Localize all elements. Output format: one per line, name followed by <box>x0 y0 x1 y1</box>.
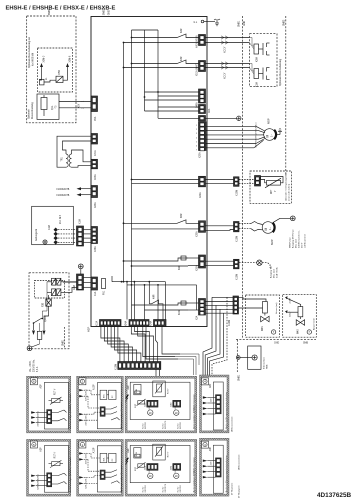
svg-text:21C Nr.3: 21C Nr.3 <box>59 214 62 224</box>
svg-text:A2P: A2P <box>40 447 43 452</box>
switch K4R <box>149 294 163 319</box>
sensor box top <box>153 444 170 460</box>
svg-text:Reserveheizung: Reserveheizung <box>31 102 34 119</box>
inner dashed box K5R <box>38 48 73 92</box>
svg-text:F1006/A07B: F1006/A07B <box>57 188 70 191</box>
svg-text:X26A: X26A <box>94 202 97 208</box>
component L1 fuse <box>40 71 57 85</box>
svg-text:Ausgang: Mit Pumpe: Ausgang: Mit Pumpe <box>291 229 294 248</box>
svg-text:X2M-3: X2M-3 <box>86 477 88 483</box>
svg-text:XCCY: XCCY <box>225 72 227 79</box>
svg-text:230V/50 Hz,: 230V/50 Hz, <box>34 359 36 372</box>
svg-text:X1M: X1M <box>170 466 172 471</box>
terminal X12M pump <box>234 222 240 243</box>
svg-text:1~: 1~ <box>269 134 273 137</box>
svg-text:7: 7 <box>308 330 310 334</box>
svg-text:X41A (YLW): X41A (YLW) <box>196 35 199 48</box>
wires X2A to valves <box>206 297 267 327</box>
connector X5A on box edge <box>91 96 98 121</box>
wires X35A to X12M <box>206 225 234 227</box>
pump motor M5P <box>264 118 276 140</box>
connector X1A FU1 <box>91 277 106 296</box>
wire top run <box>132 29 159 31</box>
wire bus row 2 <box>127 284 197 310</box>
relay K5R contact <box>56 70 68 83</box>
svg-text:K2M: K2M <box>257 57 259 62</box>
svg-text:Nur für die Wärmepumpenkaskade: Nur für die Wärmepumpenkaskadenfunktion <box>225 392 228 429</box>
ground outdoor <box>43 240 47 244</box>
wires X13A down to strip <box>101 327 141 362</box>
pump M2P <box>262 222 274 245</box>
svg-text:7: 7 <box>273 330 275 334</box>
wire vertical bus 4 <box>157 30 159 118</box>
wires X1M to box <box>84 229 92 231</box>
svg-text:SMB2: SMB2 <box>49 8 51 15</box>
label WW-Pumpe block <box>289 229 306 248</box>
svg-text:X13A: X13A <box>96 320 99 326</box>
svg-text:X1M: X1M <box>170 402 172 407</box>
svg-text:R1T t°: R1T t° <box>54 388 57 395</box>
relay contact pair 1 <box>47 278 77 285</box>
svg-text:EKRTR1: EKRTR1 <box>145 422 147 429</box>
outdoor unit box <box>32 206 74 244</box>
svg-text:L1: L1 <box>46 77 48 80</box>
circled contact 1 <box>148 464 153 479</box>
dashed net SMB2 vertical <box>285 16 287 175</box>
outer dashed box optional backup heater <box>27 16 76 123</box>
svg-text:K2R: K2R <box>181 28 183 33</box>
svg-text:SMB2: SMB2 <box>283 19 285 26</box>
svg-text:X2M-2: X2M-2 <box>38 416 40 422</box>
wire to X35A with switch K6R <box>124 220 199 224</box>
thermostat option box A13P hatched border <box>77 439 124 496</box>
X1M connector 1 <box>144 400 158 407</box>
svg-text:X25A: X25A <box>199 152 202 158</box>
R1H box <box>134 384 141 394</box>
receiver A13P inner box <box>97 446 121 492</box>
svg-text:X6A: X6A <box>208 108 211 113</box>
connector in R6T box <box>255 176 261 187</box>
svg-text:R1H: R1H <box>136 452 138 457</box>
module block 2 <box>109 453 116 462</box>
circled number 5 <box>30 441 37 448</box>
connector X46A <box>196 89 206 108</box>
svg-text:DT Hauptgerät: DT Hauptgerät <box>238 485 241 498</box>
svg-text:X5A: X5A <box>94 116 97 121</box>
note texts nur fuer <box>143 483 183 492</box>
svg-text:23 A5P: 23 A5P <box>289 297 292 303</box>
wires to X6A <box>158 106 199 108</box>
module block 2 <box>109 390 116 399</box>
wire X51A pin2 <box>124 67 199 69</box>
transformer TR1 <box>62 154 72 167</box>
dashed box valve B (3UVDHW) <box>283 295 317 338</box>
connector X1M A2P <box>47 473 52 487</box>
wires right side down <box>175 297 227 375</box>
module block 1 <box>100 453 107 462</box>
svg-text:SMB2: SMB2 <box>104 8 106 15</box>
connector X06A <box>91 159 98 180</box>
svg-text:X2M-2: X2M-2 <box>38 479 40 485</box>
svg-text:LAN Zusatzstation: LAN Zusatzstation <box>238 455 241 470</box>
connector pins LAN <box>216 458 222 477</box>
contact output A2P <box>52 473 67 484</box>
connector A13P <box>100 407 105 417</box>
svg-text:GND: GND <box>109 10 111 15</box>
connector X30A <box>188 255 206 271</box>
terminal X12M output <box>234 259 240 280</box>
svg-text:A13P: A13P <box>93 384 96 390</box>
svg-text:R1T t°: R1T t° <box>54 452 57 459</box>
circled contact 2 <box>174 400 179 415</box>
svg-text:X12M: X12M <box>237 274 239 280</box>
svg-text:X34A: X34A <box>94 246 97 252</box>
thermostat option box A8P LAN hatched border <box>200 438 230 496</box>
connector X34A on box edge <box>91 227 98 253</box>
wire X35A pin2 <box>132 228 199 230</box>
svg-text:2 A Wechselstroms,: 2 A Wechselstroms, <box>297 230 300 248</box>
svg-text:Nur für mehrstufigen Thermosta: Nur für mehrstufigen Thermostat <box>120 464 123 492</box>
wires X41A to K2M with XCCY arrows <box>206 36 255 53</box>
svg-text:6: 6 <box>196 146 197 148</box>
svg-text:4: 4 <box>196 137 197 139</box>
circled contact 1 <box>148 400 153 415</box>
svg-text:0,5A~35mA: 0,5A~35mA <box>276 267 279 278</box>
connector X1M A2P <box>47 410 52 424</box>
wire bus row 1 <box>112 276 166 320</box>
svg-text:XCCY: XCCY <box>225 46 227 53</box>
link blocks <box>107 457 109 459</box>
R1H box <box>134 448 141 458</box>
thermostat A2P inner box <box>44 446 68 493</box>
wire to X41A with switch K2R <box>132 34 199 38</box>
connector X51A <box>196 61 206 77</box>
svg-text:K1M: K1M <box>257 82 259 87</box>
circled number 4 <box>202 378 209 385</box>
svg-text:SMB1: SMB1 <box>238 20 240 27</box>
svg-text:BU1: BU1 <box>104 458 106 462</box>
svg-text:230 V: 230 V <box>301 242 303 248</box>
output circle indicator <box>239 260 279 278</box>
svg-text:SMB: SMB <box>267 364 269 369</box>
svg-text:7: 7 <box>196 150 197 152</box>
pump motor M5P wires <box>206 116 266 148</box>
svg-text:1~: 1~ <box>268 227 272 230</box>
svg-text:3: 3 <box>196 133 197 135</box>
wireless thermostat inner box <box>130 382 190 419</box>
svg-text:F1006/A07B: F1006/A07B <box>57 194 70 197</box>
ground terminal PE <box>78 264 83 274</box>
wire vertical bus 2 <box>131 30 133 320</box>
dashed links outdoor to X1M <box>58 230 77 243</box>
dashed box valve A (3UVB1) <box>246 295 280 337</box>
svg-text:K4R: K4R <box>154 294 156 299</box>
wires X12M to M2P <box>239 222 263 232</box>
main switch <box>33 282 47 324</box>
wireless thermostat inner box <box>130 445 190 482</box>
svg-text:X31A: X31A <box>94 150 97 156</box>
svg-text:SMB: SMB <box>303 343 308 345</box>
svg-text:X2M-4: X2M-4 <box>86 483 88 489</box>
svg-text:A2P: A2P <box>127 385 130 390</box>
svg-text:GND: GND <box>274 343 279 345</box>
svg-text:X2A: X2A <box>196 315 199 320</box>
svg-text:Nur für einstufigen (EIN/AUS): Nur für einstufigen (EIN/AUS) Thermostat <box>69 457 72 492</box>
connector A13P <box>100 470 105 480</box>
note texts nur fuer <box>143 420 183 429</box>
terminal X12M valves <box>229 296 239 326</box>
svg-text:X2M: X2M <box>211 461 213 465</box>
svg-text:X1M: X1M <box>144 466 146 471</box>
svg-text:X2M-1: X2M-1 <box>38 411 40 417</box>
wires X51A to K1M with XCCY arrows <box>206 62 255 79</box>
dashed box optional heater contactors <box>250 34 277 87</box>
svg-text:Optionale: Optionale <box>28 108 31 119</box>
module block 1 <box>100 390 107 399</box>
terminal X15M <box>234 177 240 196</box>
svg-text:EHSH-E / EHSHB-E / EHSX-E / EH: EHSH-E / EHSHB-E / EHSX-E / EHSXB-E <box>6 6 116 12</box>
thermal protector Q1L box <box>37 94 59 119</box>
wire vertical bus 3 <box>144 30 146 111</box>
contactor K2M <box>254 43 270 62</box>
main unit box A1P <box>91 17 207 327</box>
relay KCR with connector X2A <box>132 301 189 315</box>
svg-text:X2M-4: X2M-4 <box>86 420 88 426</box>
svg-text:6,3 A: 6,3 A <box>36 366 39 372</box>
lightning bolt RF <box>125 395 129 403</box>
svg-text:Max. Last:: Max. Last: <box>273 268 276 278</box>
arrow X2M-3 <box>40 55 45 71</box>
R1T wireless <box>135 399 145 408</box>
svg-text:für 04/08 kW: für 04/08 kW <box>32 52 35 66</box>
svg-text:X2M-3: X2M-3 <box>86 414 88 420</box>
svg-text:X51A (WHT): X51A (WHT) <box>196 63 199 76</box>
terminal X1M <box>77 219 84 246</box>
X1M connector 2 <box>170 400 180 407</box>
wire to X51A with switch K3R <box>132 60 199 64</box>
svg-text:X12M: X12M <box>229 320 231 326</box>
svg-text:KCR: KCR <box>179 310 181 315</box>
svg-text:LAN Zusatzstation: LAN Zusatzstation <box>231 417 234 432</box>
LAN adapter inner box <box>213 382 223 430</box>
wire to X22A <box>132 179 199 181</box>
net SMB1 stub <box>63 327 65 348</box>
svg-text:(innen oder außen): (innen oder außen) <box>289 184 291 201</box>
earth connection box <box>236 346 268 369</box>
svg-text:A2P: A2P <box>127 448 130 453</box>
svg-text:X14A: X14A <box>150 320 153 326</box>
ground M5P <box>275 129 282 135</box>
outdoor unit terminal pins <box>54 228 58 245</box>
svg-text:1: 1 <box>196 125 197 127</box>
R1T wireless <box>135 462 145 471</box>
contact output A2P <box>52 410 67 421</box>
svg-text:X24A: X24A <box>125 320 128 326</box>
svg-text:A2P: A2P <box>40 384 43 389</box>
connector X41A <box>196 35 206 49</box>
svg-text:X35A: X35A <box>196 231 199 237</box>
connector pins LAN <box>216 395 222 414</box>
svg-text:Optionale Reserveheizung: Optionale Reserveheizung <box>279 58 282 86</box>
lightning bolt RF <box>125 458 129 466</box>
inner dashed box relays <box>35 281 65 299</box>
connector X24A <box>125 320 150 327</box>
svg-text:Erdanschluss: Erdanschluss <box>264 357 266 369</box>
node junctions <box>123 37 159 267</box>
svg-text:DT Hauptzone: DT Hauptzone <box>231 483 234 495</box>
svg-text:Nur für mehrstufigen Thermosta: Nur für mehrstufigen Thermostat <box>120 401 123 429</box>
wires TR1 to X06A <box>72 150 92 162</box>
svg-text:X22A: X22A <box>199 192 202 198</box>
X1M connector 2 <box>170 464 180 471</box>
svg-text:M4S: M4S <box>298 329 300 334</box>
wires X14A down to strip <box>155 327 180 362</box>
fuse F2B <box>43 295 52 311</box>
input arrows LAN <box>203 460 216 479</box>
svg-text:X1M: X1M <box>80 219 82 224</box>
arrows F1006/A07B <box>57 187 94 197</box>
svg-text:K3R: K3R <box>181 56 183 61</box>
thermostat option box A2P wired hatched border <box>27 376 71 433</box>
svg-text:X1M: X1M <box>49 225 51 230</box>
sensor box top <box>153 381 170 397</box>
svg-text:X29A: X29A <box>196 265 199 271</box>
ground supply <box>27 344 39 351</box>
svg-text:Nur für einstufigen (EIN/AUS): Nur für einstufigen (EIN/AUS) Thermostat <box>69 394 72 429</box>
wire to X21A <box>158 117 199 119</box>
svg-text:Heizen (aus): Heizen (aus) <box>276 302 278 314</box>
svg-text:5: 5 <box>196 141 197 143</box>
thermostat option box A2P wireless hatched border <box>125 439 197 496</box>
ground M2P <box>273 216 296 223</box>
connector X2A <box>188 299 206 321</box>
svg-text:R6T: R6T <box>271 189 273 194</box>
svg-text:X2M-6: X2M-6 <box>69 55 71 62</box>
svg-text:1N~, 230V,: 1N~, 230V, <box>30 360 32 372</box>
svg-text:G L: G L <box>194 22 198 24</box>
svg-text:Absperrventil: Absperrventil <box>313 318 316 330</box>
svg-text:TR1: TR1 <box>62 156 64 161</box>
thermostat option box A8P LAN hatched border <box>200 375 230 433</box>
svg-text:EKRTR1: EKRTR1 <box>145 485 147 492</box>
arrow X2M-6 <box>66 55 71 71</box>
svg-text:GND: GND <box>244 21 246 26</box>
svg-text:F2B: F2B <box>43 302 45 307</box>
svg-text:-T0: -T0 <box>56 105 58 109</box>
circled number 6 <box>30 378 37 385</box>
svg-text:X2M-3: X2M-3 <box>38 484 40 490</box>
svg-text:Außengerät: Außengerät <box>35 229 38 241</box>
svg-text:EKRTR1: EKRTR1 <box>180 485 182 492</box>
circled number 2 <box>79 378 86 385</box>
thermostat A2P inner box <box>44 382 68 429</box>
svg-text:EKRTETS: EKRTETS <box>165 420 167 429</box>
terminal X2M <box>74 274 84 290</box>
svg-text:X1A: X1A <box>94 291 97 296</box>
svg-text:M5P: M5P <box>267 118 271 124</box>
svg-text:A8P: A8P <box>209 383 212 388</box>
connector X31A <box>91 134 98 157</box>
svg-text:Nur für kabellosen (EIN/AUS) T: Nur für kabellosen (EIN/AUS) Thermostat <box>192 457 195 492</box>
dashed net line bottom <box>236 340 316 381</box>
svg-text:K9R: K9R <box>179 265 181 270</box>
svg-text:SMB1: SMB1 <box>239 374 241 381</box>
svg-text:1 A Steuerstrom: 1 A Steuerstrom <box>303 233 306 248</box>
svg-text:BU1: BU1 <box>104 394 106 398</box>
svg-text:Nur für die Wärmepumpenkaskade: Nur für die Wärmepumpenkaskadenfunktion <box>225 455 228 492</box>
svg-text:EKRTR1: EKRTR1 <box>180 422 182 429</box>
supply arrows down <box>32 311 49 335</box>
svg-text:X06A: X06A <box>94 174 97 180</box>
svg-text:Max. Last:: Max. Last: <box>294 238 297 248</box>
input arrows A13P <box>79 452 100 489</box>
svg-text:1: 1 <box>83 100 85 102</box>
svg-text:FU1: FU1 <box>104 290 106 295</box>
svg-text:X5Y: X5Y <box>79 103 81 108</box>
input arrows A13P <box>79 389 100 426</box>
wires to X46A <box>145 91 199 93</box>
supply fuse element <box>37 323 42 344</box>
LAN adapter inner box <box>213 445 223 493</box>
svg-text:M4S: M4S <box>262 326 264 331</box>
dashed box optional sensor R6T <box>250 171 292 203</box>
svg-text:R1T t°: R1T t° <box>166 388 169 394</box>
X1M connector 1 <box>144 464 158 471</box>
dashed box Q2D1 supply <box>29 273 69 349</box>
connector X14A <box>150 320 167 327</box>
svg-text:BLU: BLU <box>256 122 258 126</box>
svg-text:Ausgang "AN": Ausgang "AN" <box>270 265 273 278</box>
wires Q1L to X5Y <box>59 101 93 103</box>
thermistor R1T symbol <box>49 397 64 405</box>
connector X35A <box>196 221 206 237</box>
svg-text:2: 2 <box>196 129 197 131</box>
svg-text:Q1L: Q1L <box>52 105 54 110</box>
svg-text:X2M-3: X2M-3 <box>43 55 45 62</box>
svg-text:4D137625B: 4D137625B <box>317 492 351 499</box>
svg-text:X12M: X12M <box>116 364 118 370</box>
thermostat option box A2P wireless hatched border <box>125 376 197 433</box>
thermostat option box A2P wired hatched border <box>27 439 71 496</box>
relay contact pair 2 <box>47 287 77 295</box>
contactor K1M <box>254 68 270 88</box>
connector X13A <box>96 320 122 327</box>
connector X6A <box>91 186 98 209</box>
ground symbol top <box>214 19 220 26</box>
svg-text:M: M <box>266 135 270 138</box>
svg-text:A13P: A13P <box>93 447 96 453</box>
wires TR1 to X31A <box>57 136 91 167</box>
wires X2M to A1P <box>84 277 92 279</box>
circled contact 2 <box>174 464 179 479</box>
connector X6A <box>199 105 212 114</box>
thermistor R6T <box>261 177 284 195</box>
circled number 1 <box>79 441 86 448</box>
connector X21A <box>199 116 206 122</box>
terminal strip X12M <box>116 362 161 371</box>
svg-text:K6R: K6R <box>181 213 183 218</box>
svg-text:A1P: A1P <box>86 327 90 332</box>
wires X24A down to strip <box>131 327 178 362</box>
wires X22A to R6T <box>206 179 234 181</box>
svg-text:R1H: R1H <box>136 388 138 393</box>
svg-text:R1T t°: R1T t° <box>166 451 169 457</box>
svg-text:EKRTETS: EKRTETS <box>165 483 167 492</box>
svg-text:X2M: X2M <box>211 398 213 402</box>
link to X2M pin <box>63 281 77 283</box>
link blocks <box>107 394 109 396</box>
svg-text:K5R: K5R <box>59 70 61 75</box>
